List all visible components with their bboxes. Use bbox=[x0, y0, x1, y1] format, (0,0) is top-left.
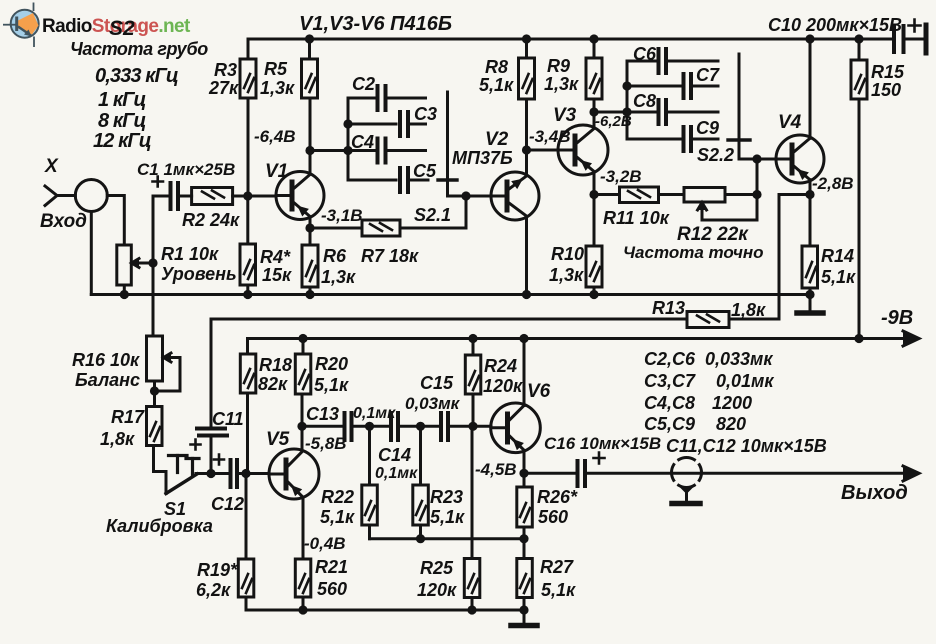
svg-text:Частота точно: Частота точно bbox=[623, 243, 764, 262]
capacitor C3 bbox=[400, 112, 408, 136]
svg-text:0,1мк: 0,1мк bbox=[375, 465, 418, 482]
svg-text:R2 24к: R2 24к bbox=[182, 210, 240, 230]
node rail R4 bbox=[243, 290, 252, 299]
wire output arrowhead bbox=[903, 466, 919, 481]
svg-text:Вход: Вход bbox=[40, 211, 87, 232]
wire R11 to R12 bbox=[659, 193, 685, 196]
svg-text:5,1к: 5,1к bbox=[314, 375, 349, 395]
wire S2.2 to V4 base bbox=[739, 140, 776, 159]
svg-text:0,03мк: 0,03мк bbox=[405, 394, 461, 413]
wire R13 left end down to C11 bbox=[210, 319, 213, 427]
node C8 row bbox=[622, 107, 631, 116]
svg-text:0,1мк: 0,1мк bbox=[353, 405, 396, 422]
wire -9V lower rail bbox=[248, 337, 860, 340]
node C13 C14 junction bbox=[365, 422, 374, 431]
svg-text:8 кГц: 8 кГц bbox=[98, 110, 146, 132]
potentiometer R12 bbox=[684, 188, 725, 203]
svg-text:1,3к: 1,3к bbox=[260, 78, 295, 98]
wire R16 wiper arm bbox=[155, 358, 181, 392]
capacitor C15 bbox=[441, 413, 448, 440]
svg-text:С6: С6 bbox=[633, 44, 657, 64]
wire R2 to V1 base bbox=[233, 195, 276, 198]
wire C11 bottom to S1 line bbox=[210, 436, 213, 474]
node R12 right bbox=[752, 190, 761, 199]
capacitor C5 bbox=[400, 168, 408, 192]
node bus R8 bbox=[522, 34, 531, 43]
resistor R10 bbox=[586, 246, 602, 287]
wire input X arrow bbox=[45, 186, 57, 206]
svg-text:5,1к: 5,1к bbox=[479, 75, 514, 95]
node -9V rail V6 bbox=[519, 334, 528, 343]
svg-text:R23: R23 bbox=[430, 487, 463, 507]
svg-text:R15: R15 bbox=[871, 62, 905, 82]
svg-text:R5: R5 bbox=[264, 59, 288, 79]
svg-text:С2: С2 bbox=[352, 74, 375, 94]
wire feedback bottom line bbox=[370, 537, 526, 540]
resistor R19 bbox=[238, 559, 254, 597]
node bottom rail R21 bbox=[298, 605, 307, 614]
node rail V2 bbox=[522, 290, 531, 299]
switch S2.1 pole bbox=[446, 92, 449, 196]
wire C6-block left vertical bbox=[626, 61, 629, 139]
node bus V4 collector bbox=[805, 34, 814, 43]
svg-text:С15: С15 bbox=[420, 373, 454, 393]
wire R9 top bbox=[593, 39, 596, 58]
capacitor C8 bbox=[659, 100, 667, 124]
wire R7 right lead bbox=[400, 227, 466, 230]
svg-text:0,333 кГц: 0,333 кГц bbox=[95, 65, 178, 87]
wire V3 emitter down bbox=[593, 172, 596, 246]
svg-text:R18: R18 bbox=[259, 355, 292, 375]
wire R18 bottom to V5 base node bbox=[246, 393, 249, 474]
wire C3 row bbox=[348, 123, 426, 126]
wire jack down to ground rail bbox=[90, 212, 93, 295]
potentiometer R16 bbox=[147, 336, 163, 381]
wire V5 emitter down bbox=[302, 497, 305, 559]
node V1 emitter R7 bbox=[305, 223, 314, 232]
svg-text:1,8к: 1,8к bbox=[731, 300, 766, 320]
capacitor C4 bbox=[378, 139, 386, 163]
transistor V1 bbox=[276, 172, 324, 220]
potentiometer R1 bbox=[117, 245, 132, 285]
wire R23 bottom bbox=[419, 525, 422, 539]
svg-text:150: 150 bbox=[871, 80, 901, 100]
wire C15 to V6 base bbox=[448, 425, 491, 428]
resistor R6 bbox=[302, 245, 318, 287]
wire R11 left lead bbox=[594, 193, 620, 196]
node rail R6 bbox=[305, 290, 314, 299]
wire V2 emitter node to V3 base bbox=[527, 149, 559, 152]
node V4 emitter bbox=[805, 190, 814, 199]
resistor R25 bbox=[464, 559, 480, 598]
svg-text:V1,V3-V6 П416Б: V1,V3-V6 П416Б bbox=[299, 13, 452, 35]
wire C8 row bbox=[627, 111, 718, 114]
wire R3 top drop bbox=[247, 39, 250, 59]
wire R12 right lead bbox=[725, 193, 757, 196]
svg-text:-3,2В: -3,2В bbox=[600, 167, 642, 186]
svg-text:R4*: R4* bbox=[260, 247, 291, 267]
wire R1 bottom to ground rail bbox=[123, 285, 126, 295]
wire R7 branch up to base node bbox=[465, 196, 468, 228]
wire R9 bottom to V3 collector bbox=[593, 99, 596, 128]
node V2 emitter bbox=[522, 145, 531, 154]
svg-text:С3: С3 bbox=[414, 104, 437, 124]
wire R24 top bbox=[472, 339, 475, 356]
resistor R11 bbox=[620, 187, 659, 203]
wire R17 bottom to S1 bbox=[152, 444, 156, 447]
wire C14 to C15 bbox=[398, 425, 438, 428]
svg-text:V6: V6 bbox=[527, 381, 551, 402]
wire C4 row bbox=[348, 149, 426, 152]
node bus R15 bbox=[854, 34, 863, 43]
resistor R26 bbox=[517, 487, 533, 527]
wire bottom common rail bbox=[246, 609, 525, 612]
svg-text:5,1к: 5,1к bbox=[821, 267, 856, 287]
svg-text:С12: С12 bbox=[211, 494, 244, 514]
node bus R9 bbox=[589, 34, 598, 43]
ground top section bbox=[809, 295, 812, 312]
svg-text:R26*: R26* bbox=[537, 487, 578, 507]
svg-text:С13: С13 bbox=[306, 404, 339, 424]
node V2 base bbox=[461, 191, 470, 200]
svg-text:С4: С4 bbox=[351, 132, 374, 152]
svg-text:5,1к: 5,1к bbox=[430, 507, 465, 527]
node C11 junction bbox=[206, 469, 215, 478]
wire R12 wiper bbox=[702, 219, 757, 222]
resistor R23 bbox=[413, 485, 429, 525]
emitter arrow V3 bbox=[580, 160, 592, 171]
svg-text:R9: R9 bbox=[547, 56, 570, 76]
node -9V rail R15 bbox=[854, 334, 863, 343]
wire R8 top bbox=[525, 39, 528, 58]
transistor V4 bbox=[776, 135, 824, 183]
svg-text:-9В: -9В bbox=[881, 307, 913, 329]
capacitor C9 bbox=[684, 127, 692, 151]
wire V6 collector up to -9V rail bbox=[523, 339, 526, 406]
svg-text:0,033мк: 0,033мк bbox=[705, 349, 773, 369]
logo RadioStorage emblem bbox=[11, 10, 39, 38]
wire R19 top to V5 base node bbox=[245, 474, 248, 560]
svg-text:Уровень: Уровень bbox=[161, 264, 237, 284]
wire C16 to output jack bbox=[585, 472, 916, 475]
resistor R22 bbox=[362, 485, 378, 525]
node bottom rail R25 bbox=[467, 605, 476, 614]
wire R4 top bbox=[246, 196, 249, 244]
resistor R9 bbox=[586, 58, 602, 99]
wire V6 emitter down bbox=[523, 451, 526, 473]
transistor V3 bbox=[558, 125, 608, 175]
wire C5 row bbox=[348, 179, 428, 182]
svg-text:С11,С12 10мк×15В: С11,С12 10мк×15В bbox=[666, 436, 827, 456]
svg-text:R1 10к: R1 10к bbox=[161, 244, 219, 264]
svg-text:1200: 1200 bbox=[712, 393, 752, 413]
svg-text:R17: R17 bbox=[111, 407, 145, 427]
svg-text:12 кГц: 12 кГц bbox=[93, 130, 151, 152]
wire C1 left lead bbox=[153, 195, 167, 198]
svg-text:120к: 120к bbox=[417, 580, 457, 600]
svg-text:X: X bbox=[44, 156, 59, 177]
wire R20 bottom to V5 collector node bbox=[301, 394, 304, 451]
svg-text:R3: R3 bbox=[214, 60, 237, 80]
svg-text:С5: С5 bbox=[413, 161, 437, 181]
wire V3 collector node to C6 block bbox=[594, 111, 627, 114]
node R23 bottom bbox=[416, 534, 425, 543]
node V1 collector bbox=[305, 146, 314, 155]
svg-text:820: 820 bbox=[716, 414, 746, 434]
wire R21 bottom bbox=[302, 597, 305, 610]
svg-text:R8: R8 bbox=[485, 57, 508, 77]
emitter arrow V4 bbox=[797, 169, 809, 180]
node C7 row bbox=[622, 81, 631, 90]
wire R18 top bbox=[246, 339, 249, 355]
wire R25 top from V6 base node bbox=[471, 426, 474, 558]
resistor R14 bbox=[802, 246, 818, 288]
svg-text:С1 1мк×25В: С1 1мк×25В bbox=[137, 160, 235, 179]
capacitor C7 bbox=[684, 74, 692, 98]
svg-text:0,01мк: 0,01мк bbox=[716, 371, 774, 391]
wire R20 top bbox=[302, 339, 305, 355]
svg-text:С3,С7: С3,С7 bbox=[644, 371, 696, 391]
switch S1 bbox=[154, 446, 167, 494]
svg-text:Выход: Выход bbox=[841, 482, 908, 504]
svg-text:R12 22к: R12 22к bbox=[677, 224, 749, 245]
wire V1 emitter down bbox=[309, 217, 312, 245]
wire R19 bottom bbox=[245, 597, 248, 610]
svg-text:С9: С9 bbox=[696, 118, 719, 138]
svg-text:R25: R25 bbox=[420, 558, 454, 578]
svg-text:1,3к: 1,3к bbox=[321, 267, 356, 287]
capacitor C6 bbox=[659, 49, 667, 73]
svg-text:S2: S2 bbox=[109, 17, 135, 40]
node -9V rail R20 bbox=[298, 334, 307, 343]
wire V1 emitter to R7 bbox=[310, 227, 362, 230]
svg-text:V3: V3 bbox=[553, 105, 577, 126]
svg-text:С2,С6: С2,С6 bbox=[644, 349, 696, 369]
svg-text:-3,1В: -3,1В bbox=[321, 206, 363, 225]
svg-text:С16 10мк×15В: С16 10мк×15В bbox=[544, 434, 661, 453]
wire R26 top bbox=[523, 473, 526, 487]
svg-text:R27: R27 bbox=[540, 557, 574, 577]
wire R22 bottom bbox=[368, 525, 371, 539]
svg-text:5,1к: 5,1к bbox=[541, 580, 576, 600]
svg-text:82к: 82к bbox=[258, 374, 288, 394]
resistor R13 bbox=[687, 312, 729, 328]
wire C1 to R2 bbox=[178, 195, 192, 198]
resistor R5 bbox=[302, 59, 318, 98]
svg-text:V4: V4 bbox=[778, 112, 802, 133]
wire C9 row bbox=[627, 138, 718, 141]
node V5 base bbox=[241, 469, 250, 478]
connector X input jack bbox=[75, 180, 107, 212]
svg-text:С4,С8: С4,С8 bbox=[644, 393, 695, 413]
transistor V5 bbox=[269, 449, 319, 499]
wire R15 bottom to -9V rail bbox=[858, 99, 861, 339]
svg-text:Калибровка: Калибровка bbox=[106, 516, 213, 536]
svg-text:V1: V1 bbox=[265, 161, 288, 182]
wire V6 emitter to C16 bbox=[524, 472, 574, 475]
wire V2 base bbox=[448, 195, 492, 198]
svg-text:5,1к: 5,1к bbox=[320, 507, 355, 527]
svg-text:R13: R13 bbox=[652, 298, 685, 318]
wire top supply bus bbox=[248, 38, 894, 41]
svg-text:1,3к: 1,3к bbox=[544, 74, 579, 94]
wire R25 bottom bbox=[471, 598, 474, 611]
resistor R2 bbox=[192, 188, 233, 205]
node rail R1 bbox=[120, 290, 129, 299]
capacitor C1 bbox=[171, 183, 179, 209]
svg-text:R22: R22 bbox=[321, 487, 354, 507]
emitter arrow V1 bbox=[297, 206, 309, 217]
resistor R15 bbox=[851, 60, 867, 99]
svg-text:1,3к: 1,3к bbox=[549, 265, 584, 285]
emitter arrow V2 bbox=[511, 179, 523, 190]
svg-text:R6: R6 bbox=[323, 246, 347, 266]
node -9V rail R24 bbox=[468, 334, 477, 343]
node R26 R27 junction bbox=[519, 534, 528, 543]
wire R14 bottom bbox=[809, 288, 812, 295]
svg-text:R10: R10 bbox=[551, 244, 584, 264]
svg-text:-0,4В: -0,4В bbox=[304, 534, 346, 553]
svg-text:V5: V5 bbox=[266, 429, 290, 450]
node V1 base bbox=[243, 191, 252, 200]
svg-text:R19*: R19* bbox=[197, 560, 238, 580]
wire R16 bottom bbox=[153, 381, 156, 407]
node C3 row bbox=[343, 119, 352, 128]
wire R8 bottom to V2 emitter node bbox=[525, 99, 528, 175]
transistor V2 bbox=[491, 172, 539, 220]
capacitor C14 bbox=[391, 413, 398, 440]
wire V4 emitter down bbox=[809, 180, 812, 246]
svg-text:-6,2В: -6,2В bbox=[595, 113, 632, 130]
svg-text:1 кГц: 1 кГц bbox=[98, 89, 146, 111]
svg-text:С11: С11 bbox=[212, 409, 244, 429]
wire R24 bottom to V6 base node bbox=[472, 394, 475, 426]
wire R4 bottom bbox=[246, 285, 249, 295]
node bottom rail R27 bbox=[519, 605, 528, 614]
emitter arrow V5 bbox=[291, 485, 302, 496]
svg-text:27к: 27к bbox=[208, 78, 239, 98]
node C4 row bbox=[343, 146, 352, 155]
switch S2.2 pole bbox=[738, 54, 741, 140]
svg-text:V2: V2 bbox=[485, 129, 509, 150]
resistor R24 bbox=[465, 355, 481, 394]
node V4 base bbox=[752, 154, 761, 163]
svg-text:С8: С8 bbox=[633, 91, 656, 111]
wire V4 collector to bus bbox=[809, 39, 812, 138]
node rail ground bbox=[805, 290, 814, 299]
wire C-block left vertical bbox=[347, 98, 350, 180]
node V3 collector bbox=[589, 107, 598, 116]
svg-text:С7: С7 bbox=[696, 65, 720, 85]
wire C13 to C14 bbox=[352, 425, 388, 428]
svg-text:6,2к: 6,2к bbox=[196, 580, 231, 600]
capacitor C16 bbox=[578, 461, 586, 486]
svg-text:R14: R14 bbox=[821, 246, 854, 266]
svg-text:С10 200мк×15В: С10 200мк×15В bbox=[768, 15, 902, 35]
svg-text:S2.2: S2.2 bbox=[697, 145, 734, 165]
svg-text:R20: R20 bbox=[315, 354, 348, 374]
svg-text:С5,С9: С5,С9 bbox=[644, 414, 695, 434]
wire R6 bottom bbox=[309, 287, 312, 295]
transistor V6 bbox=[491, 403, 541, 453]
node V6 base bbox=[468, 422, 477, 431]
connector output jack bbox=[672, 458, 702, 488]
resistor R7 bbox=[362, 220, 400, 236]
resistor R4 bbox=[240, 244, 256, 285]
wire R1 wiper arm bbox=[139, 262, 153, 265]
resistor R20 bbox=[295, 354, 311, 394]
svg-text:Частота грубо: Частота грубо bbox=[70, 39, 208, 59]
wire V1 collector node to C-block feed bbox=[310, 149, 348, 152]
svg-text:-6,4В: -6,4В bbox=[254, 127, 296, 146]
ground bottom section bbox=[523, 610, 526, 623]
svg-text:МП37Б: МП37Б bbox=[452, 148, 513, 168]
node rail R10 bbox=[589, 290, 598, 299]
wire ground rail bbox=[91, 293, 810, 296]
emitter arrow V6 bbox=[513, 439, 524, 450]
svg-text:Баланс: Баланс bbox=[75, 370, 140, 390]
svg-text:R24: R24 bbox=[484, 356, 517, 376]
wire R23 top bbox=[419, 426, 422, 485]
svg-text:-3,4В: -3,4В bbox=[529, 127, 571, 146]
svg-text:R11 10к: R11 10к bbox=[603, 208, 670, 228]
wire R5 top bbox=[308, 39, 311, 59]
wire R5 bottom to V1 collector bbox=[309, 98, 312, 174]
resistor R17 bbox=[147, 407, 163, 446]
wire R27 bottom bbox=[523, 598, 526, 611]
wire -9V feed arrow bbox=[859, 337, 916, 340]
node R16 wiper junction bbox=[150, 386, 159, 395]
node bus R5 bbox=[305, 34, 314, 43]
svg-text:S2.1: S2.1 bbox=[414, 205, 451, 225]
svg-text:R21: R21 bbox=[315, 557, 348, 577]
node V3 emitter bbox=[589, 190, 598, 199]
resistor R3 bbox=[240, 59, 256, 98]
wire V5 collector node to C13 bbox=[302, 425, 341, 428]
svg-text:15к: 15к bbox=[262, 265, 292, 285]
wire jack to R1 top bbox=[107, 196, 124, 246]
capacitor C10 bbox=[894, 26, 904, 52]
node C14 C15 junction bbox=[416, 422, 425, 431]
node V6 emitter bbox=[519, 469, 528, 478]
ground output jack bbox=[685, 488, 688, 502]
svg-text:R7 18к: R7 18к bbox=[361, 246, 419, 266]
wire R10 bottom bbox=[593, 287, 596, 295]
capacitor C13 bbox=[345, 413, 352, 440]
capacitor C12 bbox=[231, 460, 238, 487]
wire R3 bottom to base node bbox=[247, 98, 250, 196]
resistor R27 bbox=[517, 559, 533, 598]
svg-text:-5,8В: -5,8В bbox=[305, 434, 347, 453]
wire R26 bottom to R27 bbox=[523, 527, 526, 559]
wire V2 collector to ground rail bbox=[525, 217, 528, 295]
resistor R8 bbox=[519, 58, 535, 99]
capacitor C11 bbox=[197, 429, 227, 436]
wire R15 tap on bus bbox=[858, 39, 861, 60]
svg-text:С14: С14 bbox=[378, 445, 411, 465]
wire R22 top bbox=[368, 426, 371, 485]
wire C6 row bbox=[627, 60, 718, 63]
wire C7 row bbox=[627, 85, 718, 88]
svg-text:560: 560 bbox=[317, 579, 347, 599]
svg-text:1,8к: 1,8к bbox=[100, 429, 135, 449]
svg-text:-2,8В: -2,8В bbox=[812, 174, 854, 193]
resistor R21 bbox=[295, 559, 311, 597]
svg-text:560: 560 bbox=[538, 507, 568, 527]
node V5 collector bbox=[297, 422, 306, 431]
wire V4 emitter to R13 branch bbox=[779, 195, 810, 320]
wire R13 line bbox=[211, 318, 779, 321]
